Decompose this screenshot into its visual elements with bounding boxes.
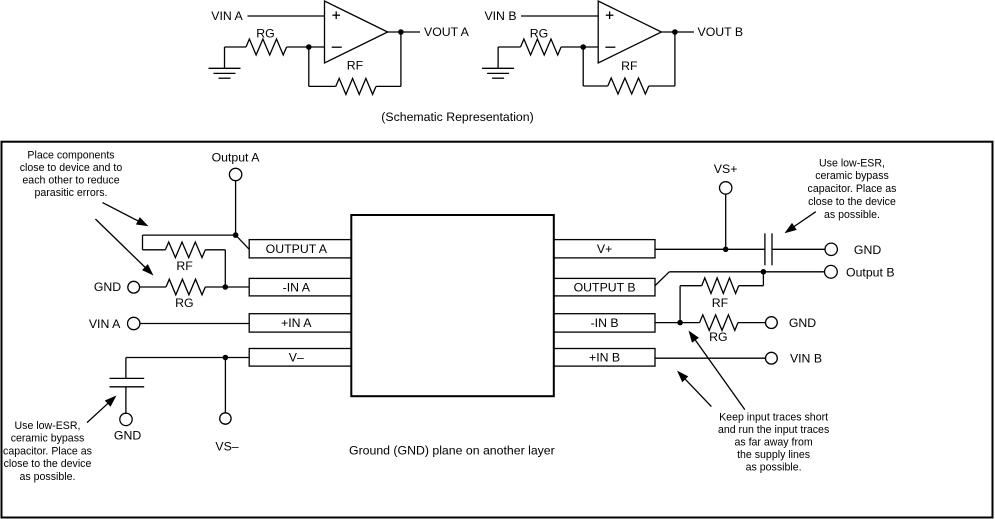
- wire feedback left (B): [582, 47, 584, 86]
- wire VS- down: [224, 358, 226, 413]
- wire stub to RF: [142, 235, 144, 250]
- junction -IN A: [223, 284, 229, 290]
- svg-text:GND: GND: [789, 316, 816, 330]
- svg-text:ceramic bypass: ceramic bypass: [11, 433, 85, 445]
- wire RG to inverting input: [561, 46, 598, 48]
- capacitor C2 (bypass, right): [765, 233, 772, 265]
- junction output node B: [672, 29, 678, 35]
- svg-text:parasitic errors.: parasitic errors.: [35, 187, 108, 199]
- wire diagonal OUTPUT B: [655, 272, 669, 286]
- wire Output A down: [235, 181, 237, 235]
- svg-text:GND: GND: [94, 280, 121, 294]
- svg-text:close to the device: close to the device: [808, 196, 896, 208]
- ground (circuit B): [482, 47, 514, 78]
- ground (circuit A): [209, 47, 241, 78]
- svg-text:RG: RG: [709, 330, 727, 344]
- pin 1 OUTPUT A: [249, 240, 351, 258]
- wire +IN B trace: [655, 357, 766, 359]
- pin 7 OUTPUT B: [554, 278, 655, 296]
- note: use low-ESR (left): [3, 420, 92, 483]
- wire feedback right (A): [400, 32, 402, 86]
- svg-text:as far away from: as far away from: [734, 437, 812, 449]
- pin 3 +IN A: [249, 314, 351, 332]
- arrow to -IN B junction: [689, 331, 745, 410]
- wire capacitor to GND: [772, 248, 825, 250]
- IC device body: [351, 215, 554, 396]
- junction V+: [723, 247, 729, 253]
- pin 6 -IN B: [554, 314, 655, 332]
- svg-text:close to the device: close to the device: [4, 458, 92, 470]
- terminal GND: [128, 281, 140, 293]
- resistor RF (layout A): [143, 249, 166, 251]
- pin 2 -IN A: [249, 278, 351, 296]
- svg-text:RG: RG: [175, 296, 193, 310]
- svg-text:OUTPUT A: OUTPUT A: [266, 242, 328, 256]
- svg-text:GND: GND: [854, 243, 881, 257]
- resistor RG (layout A): [166, 279, 205, 295]
- svg-text:+IN B: +IN B: [589, 351, 620, 365]
- note: place components close: [20, 149, 123, 199]
- svg-text:VIN A: VIN A: [89, 317, 121, 331]
- svg-text:Place components: Place components: [27, 149, 114, 161]
- svg-text:V+: V+: [597, 242, 612, 256]
- svg-text:Output B: Output B: [846, 265, 895, 279]
- wire V- to capacitor: [125, 358, 127, 379]
- svg-text:RF: RF: [176, 259, 193, 273]
- svg-text:V–: V–: [289, 351, 304, 365]
- capacitor C1 (bypass, left): [110, 378, 145, 386]
- wire feedback left (A): [308, 47, 310, 86]
- pin 4 V-: [249, 349, 351, 367]
- svg-text:Keep input traces short: Keep input traces short: [719, 411, 828, 423]
- wire VIN A to +IN A pin: [140, 323, 249, 325]
- svg-text:as possible.: as possible.: [824, 209, 880, 221]
- terminal VS-: [220, 413, 231, 424]
- svg-text:RG: RG: [256, 27, 274, 41]
- junction output node A: [398, 29, 404, 35]
- wire RG to inverting input: [287, 46, 325, 48]
- svg-text:VIN B: VIN B: [484, 9, 516, 23]
- svg-text:VIN A: VIN A: [211, 9, 243, 23]
- svg-text:RG: RG: [530, 27, 548, 41]
- svg-text:Use low-ESR,: Use low-ESR,: [15, 420, 81, 432]
- svg-text:as possible.: as possible.: [20, 471, 76, 483]
- terminal GND (right top): [825, 243, 837, 255]
- resistor RG (circuit A): [246, 39, 287, 55]
- arrow to RF trace: [103, 203, 149, 227]
- wire capacitor to GND terminal: [125, 387, 127, 413]
- svg-text:VOUT B: VOUT B: [698, 25, 744, 39]
- junction (inverting input node A): [306, 44, 312, 50]
- pin 5 +IN B: [554, 349, 655, 367]
- wire V- trace: [126, 357, 249, 359]
- svg-text:VS–: VS–: [215, 439, 238, 453]
- wire VIN B to op-amp + input: [521, 15, 598, 17]
- wire Output B down to RF: [762, 272, 764, 286]
- terminal VS+: [720, 182, 732, 194]
- wire feedback right (B): [674, 32, 676, 86]
- svg-text:ceramic bypass: ceramic bypass: [815, 170, 889, 182]
- wire RF down to -IN B: [679, 286, 681, 323]
- svg-text:GND: GND: [114, 429, 141, 443]
- resistor RF (layout B): [680, 285, 702, 287]
- svg-text:RF: RF: [712, 296, 729, 310]
- wire op-amp output (A): [388, 31, 420, 33]
- svg-text:(Schematic Representation): (Schematic Representation): [381, 110, 533, 124]
- svg-text:+IN A: +IN A: [281, 316, 312, 330]
- svg-text:capacitor. Place as: capacitor. Place as: [3, 445, 92, 457]
- op-amp U1 (channel A): [325, 1, 388, 63]
- junction output A trace: [233, 232, 239, 238]
- wire RG to -IN A pin: [205, 286, 249, 288]
- junction Output B: [761, 269, 767, 275]
- wire ground to RG: [498, 46, 520, 48]
- svg-text:-IN A: -IN A: [283, 280, 311, 294]
- svg-text:OUTPUT B: OUTPUT B: [574, 280, 636, 294]
- arrow to capacitor C2: [785, 212, 816, 234]
- arrow to capacitor C1: [87, 396, 117, 423]
- svg-text:RF: RF: [347, 59, 364, 73]
- wire -IN B trace: [655, 322, 700, 324]
- layout outer border: [2, 142, 993, 518]
- terminal VIN A: [128, 317, 140, 329]
- svg-text:VS+: VS+: [714, 162, 738, 176]
- op-amp U2 (channel B): [598, 1, 661, 63]
- svg-text:close to device and to: close to device and to: [20, 162, 123, 174]
- note: use low-ESR (right): [808, 157, 897, 221]
- resistor RF (circuit B): [583, 85, 608, 87]
- terminal GND (right mid): [766, 317, 778, 329]
- svg-text:as possible.: as possible.: [746, 462, 802, 474]
- svg-text:Ground (GND) plane on another: Ground (GND) plane on another layer: [349, 443, 555, 457]
- terminal GND (below capacitor): [120, 413, 132, 425]
- wire RG to GND terminal: [738, 322, 766, 324]
- wire output trace A: [143, 234, 236, 236]
- wire ground to RG: [225, 46, 247, 48]
- wire diagonal to OUTPUT A pin: [236, 235, 250, 249]
- svg-text:Use low-ESR,: Use low-ESR,: [819, 157, 885, 169]
- terminal Output B: [825, 265, 838, 278]
- wire V+ trace: [655, 248, 765, 250]
- svg-text:capacitor. Place as: capacitor. Place as: [808, 183, 897, 195]
- wire GND to RG: [140, 286, 166, 288]
- svg-text:RF: RF: [621, 59, 638, 73]
- svg-text:and run the input traces: and run the input traces: [718, 424, 829, 436]
- wire RF down to -IN A: [224, 250, 226, 287]
- wire op-amp output (B): [661, 31, 694, 33]
- pin 8 V+: [554, 240, 655, 258]
- svg-text:the supply lines: the supply lines: [737, 449, 810, 461]
- note: keep input traces short: [718, 411, 829, 473]
- svg-text:each other to reduce: each other to reduce: [22, 174, 119, 186]
- wire VIN A to op-amp + input: [248, 15, 325, 17]
- svg-text:-IN B: -IN B: [591, 316, 619, 330]
- junction V-: [223, 355, 229, 361]
- resistor RG (layout B): [700, 315, 738, 331]
- junction (inverting input node B): [580, 44, 586, 50]
- terminal VIN B: [766, 352, 778, 364]
- arrow to RG trace: [95, 219, 153, 276]
- arrow to +IN B trace: [677, 371, 711, 407]
- terminal Output A: [229, 168, 241, 180]
- wire Output B trace: [669, 271, 824, 273]
- svg-text:Output A: Output A: [212, 150, 261, 164]
- resistor RG (circuit B): [521, 39, 562, 55]
- resistor RF (circuit A): [309, 85, 336, 87]
- svg-text:VOUT A: VOUT A: [424, 25, 470, 39]
- wire VS+ down to V+: [725, 194, 727, 249]
- svg-text:VIN B: VIN B: [790, 352, 822, 366]
- junction -IN B: [677, 320, 683, 326]
